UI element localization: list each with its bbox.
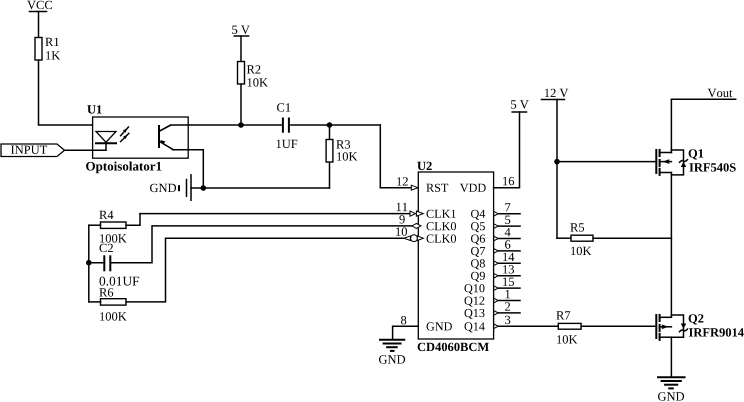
wire R5 to source line — [593, 237, 671, 239]
wire 12V to R5 — [557, 237, 571, 239]
pin Q10-15 — [494, 278, 520, 291]
ground GND pin8 — [379, 340, 405, 364]
resistor R4 — [99, 211, 126, 243]
pin Q12-1 — [494, 290, 520, 303]
pin 12 triangle — [411, 185, 418, 190]
wire Vout to Q1 drain — [670, 99, 672, 152]
light arrows of U1 — [121, 127, 129, 142]
wire bus left — [88, 225, 90, 302]
node junction gate Q1 — [554, 159, 560, 165]
wire INPUT to LED cathode — [65, 149, 107, 151]
optoisolator U1 — [86, 105, 188, 173]
wire R4 left — [89, 224, 101, 226]
node junction bus-C2 — [86, 260, 92, 266]
pin labels RST VDD 12 16 — [397, 177, 514, 192]
pin Q14-3 — [494, 316, 559, 329]
pin CLK0-9 symbols — [399, 215, 456, 230]
wire C2 to CLK0 pin9 — [110, 226, 412, 263]
wire ground rail — [191, 187, 330, 189]
wire 5V to R2 — [240, 36, 242, 62]
pin Q13-2 — [494, 302, 520, 315]
capacitor C2 — [100, 244, 140, 286]
wire to pin 12 — [380, 125, 411, 188]
wire Q2 source to GND — [670, 337, 672, 377]
resistor R7 — [556, 311, 581, 343]
pin Q4-7 — [494, 203, 520, 216]
transistor Q2 — [656, 314, 744, 340]
pin CLK1 symbols — [397, 203, 456, 218]
IC output labels — [427, 210, 486, 333]
resistor R1 — [35, 38, 60, 61]
wire VCC to R1 — [38, 12, 40, 38]
pin Q8-14 — [494, 253, 520, 266]
pin Q9-13 — [494, 265, 520, 278]
transistor of U1 — [159, 125, 173, 149]
ground GND near U1 — [150, 175, 191, 201]
pin Q5-5 — [494, 216, 520, 229]
capacitor C1 — [277, 103, 298, 148]
ground GND Q2 — [658, 377, 685, 400]
wire pin16 VDD to 5V — [494, 112, 520, 188]
power 5V (R2) — [232, 26, 250, 36]
pin Q7-6 — [494, 240, 520, 253]
pin Q6-4 — [494, 228, 520, 241]
wire Q1 source to Q2 drain — [670, 173, 672, 318]
resistor R3 — [326, 140, 357, 163]
resistor R5 — [570, 223, 593, 255]
wire R7 to gate Q2 — [581, 325, 656, 327]
wire emitter to ground rail — [173, 150, 204, 188]
IC U2 CD4060BCM — [417, 162, 493, 351]
power Vout — [671, 89, 735, 100]
power 12V — [542, 89, 569, 100]
resistor R6 — [99, 288, 126, 320]
wire R4 to CLK1 — [126, 214, 140, 226]
resistor R2 — [238, 62, 268, 87]
power VCC — [27, 1, 52, 12]
node junction emitter-ground — [201, 185, 207, 191]
pin CLK0-10 symbols — [396, 227, 456, 242]
wire CLK1 long — [140, 213, 410, 215]
power 5V (VDD) — [511, 100, 529, 112]
wire R6 left — [89, 301, 101, 303]
pin 8 GND wire — [393, 316, 419, 340]
wire main horizontal (collector to C1) — [160, 125, 283, 131]
diode LED of U1 — [96, 132, 116, 150]
node junction R2 — [238, 122, 244, 128]
wire R2 to main node — [240, 84, 242, 125]
wire C1 to RST corner — [289, 124, 380, 126]
wire R3 top — [329, 125, 331, 140]
wire R3 bottom riser — [329, 162, 331, 188]
wire R1 to U1 anode — [39, 60, 107, 132]
wire 12V rail — [556, 100, 558, 239]
wire gate Q1 — [557, 161, 656, 163]
transistor Q1 — [656, 149, 735, 175]
wire R6 to CLK0 pin10 — [126, 238, 404, 302]
wire C2 left — [89, 262, 105, 264]
node junction R3 — [327, 122, 333, 128]
node INPUT — [1, 144, 65, 157]
